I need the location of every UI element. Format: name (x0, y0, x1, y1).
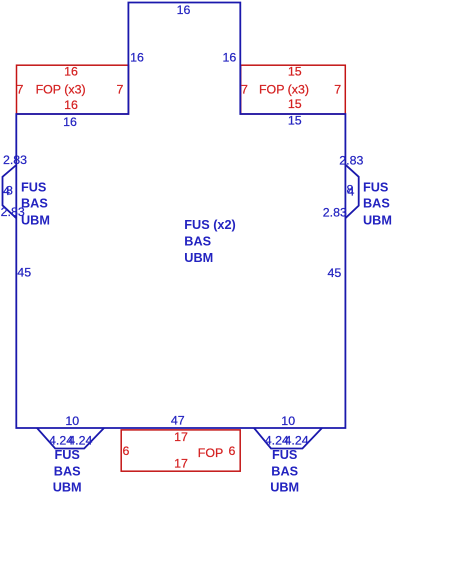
svg-text:16: 16 (64, 64, 78, 78)
svg-text:UBM: UBM (184, 251, 213, 265)
svg-text:10: 10 (65, 414, 79, 428)
svg-text:15: 15 (288, 64, 302, 78)
bottom-right trapezoid notch (254, 428, 322, 449)
svg-text:16: 16 (64, 98, 78, 112)
svg-text:FOP (x3): FOP (x3) (259, 83, 309, 97)
svg-text:10: 10 (281, 414, 295, 428)
svg-text:4.24: 4.24 (285, 433, 309, 447)
svg-text:FUS: FUS (272, 448, 297, 462)
svg-text:BAS: BAS (21, 197, 48, 211)
svg-text:7: 7 (117, 83, 124, 97)
svg-text:17: 17 (174, 430, 188, 444)
package body outline with top tab (16, 3, 345, 429)
right FOP box (241, 65, 346, 114)
svg-text:2.83: 2.83 (339, 154, 363, 168)
svg-text:BAS: BAS (271, 464, 298, 478)
svg-text:7: 7 (17, 83, 24, 97)
svg-text:BAS: BAS (363, 197, 390, 211)
svg-text:UBM: UBM (21, 213, 50, 227)
svg-text:45: 45 (328, 266, 342, 280)
svg-text:BAS: BAS (184, 235, 211, 249)
left side notch (3, 165, 17, 218)
svg-text:6: 6 (229, 444, 236, 458)
svg-text:16: 16 (130, 50, 144, 64)
svg-text:16: 16 (223, 50, 237, 64)
svg-text:15: 15 (288, 97, 302, 111)
svg-text:FUS: FUS (55, 448, 80, 462)
svg-text:UBM: UBM (270, 480, 299, 494)
svg-text:16: 16 (177, 3, 191, 17)
svg-text:UBM: UBM (53, 480, 82, 494)
svg-text:2.83: 2.83 (323, 205, 347, 219)
bottom-left trapezoid notch (37, 428, 104, 449)
svg-text:2.83: 2.83 (3, 153, 27, 167)
svg-text:7: 7 (334, 83, 341, 97)
svg-text:FUS: FUS (363, 180, 388, 194)
svg-text:4: 4 (348, 185, 355, 199)
svg-text:47: 47 (171, 413, 185, 427)
svg-text:UBM: UBM (363, 213, 392, 227)
svg-text:6: 6 (123, 444, 130, 458)
svg-text:8: 8 (6, 183, 13, 197)
svg-text:16: 16 (63, 115, 77, 129)
svg-text:7: 7 (241, 83, 248, 97)
svg-text:15: 15 (288, 114, 302, 128)
svg-text:FOP (x3): FOP (x3) (36, 83, 86, 97)
svg-text:17: 17 (174, 457, 188, 471)
svg-text:FUS: FUS (21, 180, 46, 194)
right side notch (345, 165, 358, 219)
bottom FOP box (121, 430, 240, 471)
svg-text:45: 45 (17, 266, 31, 280)
svg-text:FUS (x2): FUS (x2) (184, 218, 235, 232)
left FOP box (17, 65, 129, 114)
svg-text:BAS: BAS (54, 464, 81, 478)
svg-text:FOP: FOP (198, 446, 223, 460)
svg-text:4.24: 4.24 (68, 433, 92, 447)
